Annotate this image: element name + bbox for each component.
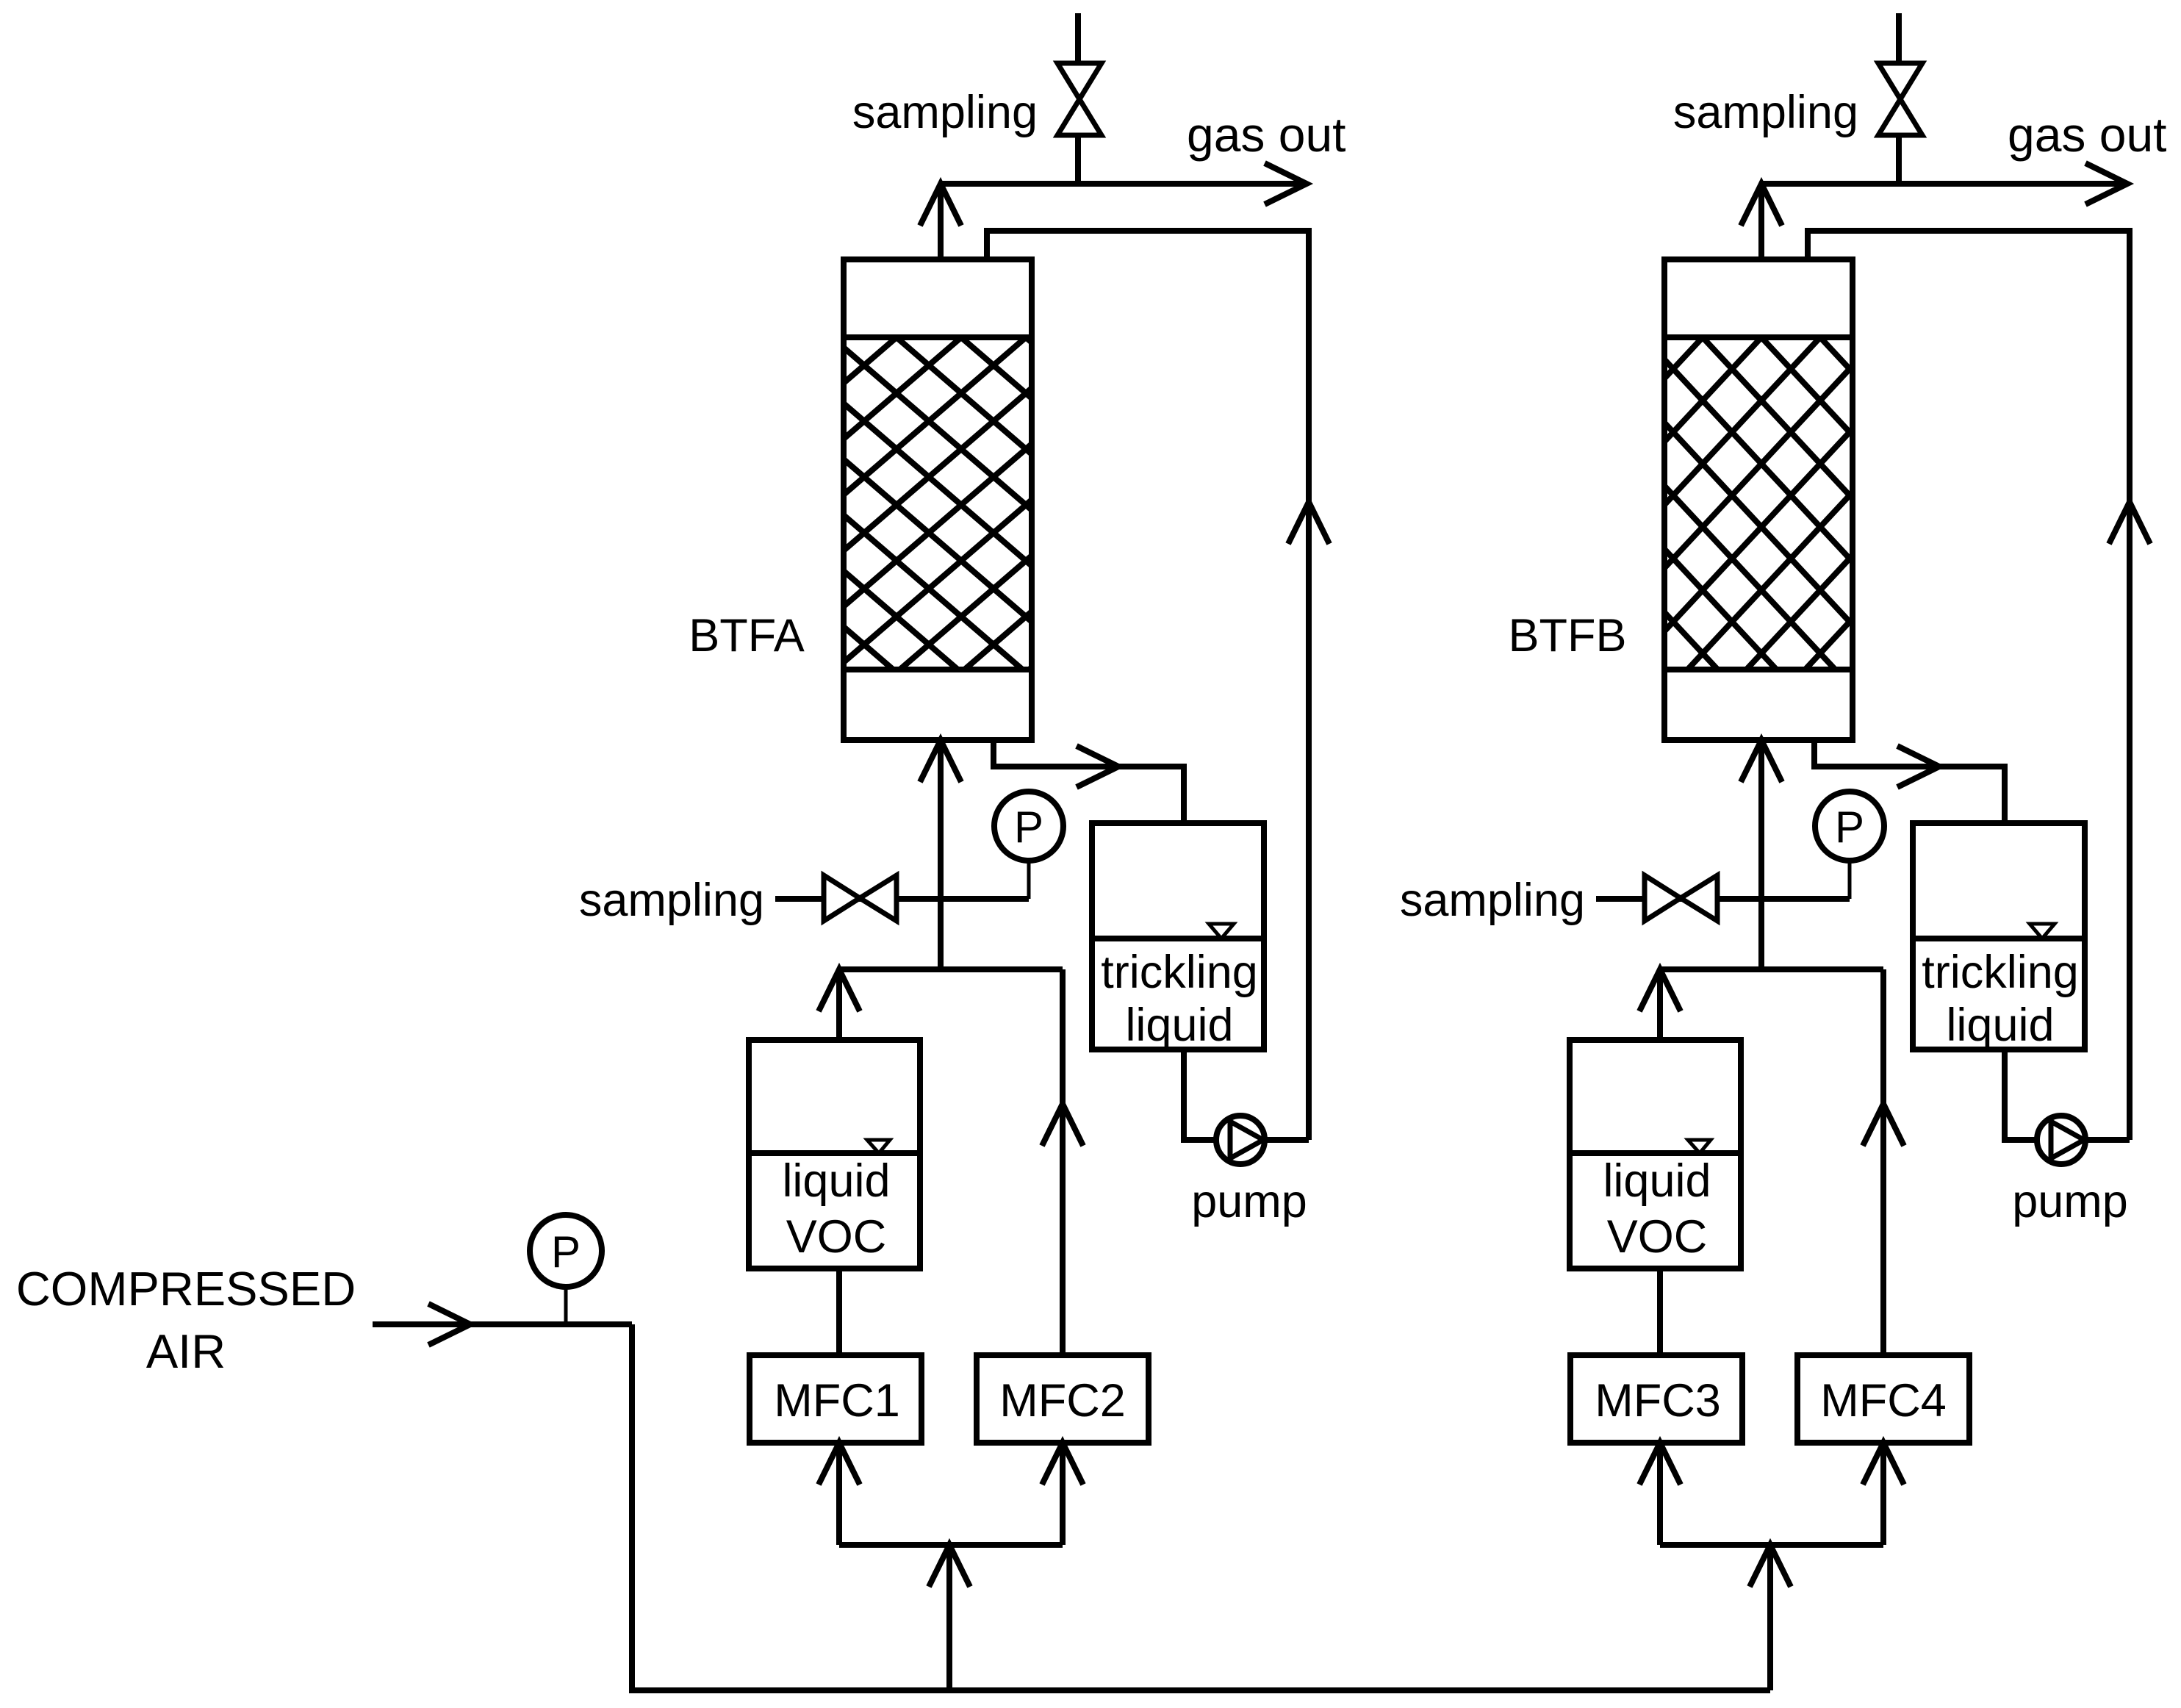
- svg-text:gas out: gas out: [2008, 107, 2167, 162]
- svg-text:VOC: VOC: [1607, 1211, 1708, 1263]
- svg-text:sampling: sampling: [1673, 87, 1858, 138]
- svg-text:P: P: [551, 1227, 581, 1277]
- svg-text:VOC: VOC: [786, 1211, 887, 1263]
- svg-text:gas out: gas out: [1187, 107, 1346, 162]
- svg-text:BTFB: BTFB: [1508, 610, 1626, 661]
- svg-text:liquid: liquid: [1603, 1155, 1711, 1207]
- svg-text:liquid: liquid: [782, 1155, 890, 1207]
- svg-text:liquid: liquid: [1946, 1000, 2054, 1051]
- svg-text:BTFA: BTFA: [689, 610, 805, 661]
- svg-text:pump: pump: [1191, 1176, 1307, 1227]
- svg-text:MFC3: MFC3: [1595, 1375, 1721, 1427]
- svg-text:liquid: liquid: [1125, 1000, 1233, 1051]
- svg-text:sampling: sampling: [852, 87, 1038, 138]
- svg-text:MFC1: MFC1: [774, 1375, 900, 1427]
- svg-text:pump: pump: [2012, 1176, 2128, 1227]
- svg-text:P: P: [1835, 803, 1864, 852]
- svg-text:trickling: trickling: [1922, 947, 2079, 998]
- svg-text:sampling: sampling: [1400, 875, 1585, 926]
- svg-text:AIR: AIR: [146, 1324, 226, 1378]
- svg-text:sampling: sampling: [579, 875, 764, 926]
- svg-text:trickling: trickling: [1101, 947, 1258, 998]
- svg-text:MFC4: MFC4: [1820, 1375, 1947, 1427]
- svg-text:P: P: [1014, 803, 1043, 852]
- svg-text:MFC2: MFC2: [999, 1375, 1126, 1427]
- svg-text:COMPRESSED: COMPRESSED: [16, 1262, 356, 1316]
